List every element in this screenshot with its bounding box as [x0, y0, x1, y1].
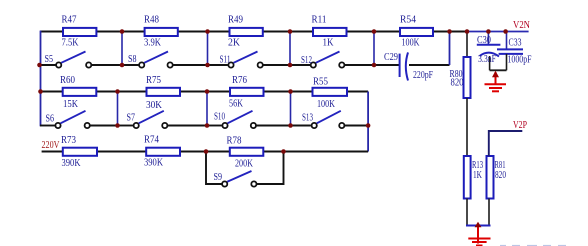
- resistor R75: [147, 88, 181, 96]
- switch S12: [311, 52, 345, 68]
- svg-text:R76: R76: [232, 74, 247, 86]
- wire row2 main horizontal: [40, 91, 368, 93]
- switch S6: [55, 111, 89, 128]
- switch S8: [139, 52, 173, 68]
- ground bottom: [468, 226, 490, 246]
- resistor R48: [145, 28, 178, 36]
- svg-text:220pF: 220pF: [413, 69, 433, 81]
- resistor R80: [464, 57, 471, 98]
- wire row1 main horizontal: [40, 31, 467, 33]
- switch S10: [222, 111, 256, 128]
- svg-text:390K: 390K: [62, 157, 81, 169]
- svg-text:R49: R49: [228, 14, 243, 26]
- wire R81 bottom lead: [488, 199, 490, 226]
- node bottom join arrow: [475, 222, 482, 228]
- resistor R76: [230, 88, 264, 96]
- svg-text:R73: R73: [61, 134, 76, 146]
- svg-text:S13: S13: [302, 112, 313, 124]
- wire row3 main horizontal: [42, 151, 369, 153]
- capacitor C29: [400, 52, 408, 80]
- switch S9: [222, 171, 256, 187]
- resistor R13: [464, 156, 471, 199]
- ground middle: [485, 72, 507, 91]
- wire riser row2 b: [206, 92, 208, 126]
- resistor R60: [63, 88, 97, 96]
- wire R80 top lead: [466, 32, 468, 58]
- wire S9 left drop: [206, 152, 222, 185]
- svg-text:220V: 220V: [42, 139, 60, 151]
- svg-text:R54: R54: [400, 14, 416, 26]
- svg-text:V2P: V2P: [513, 119, 527, 131]
- node switch row2 junctions: [115, 123, 370, 128]
- wire riser row2 a: [117, 92, 119, 126]
- svg-text:200K: 200K: [235, 158, 253, 170]
- svg-text:3.9K: 3.9K: [144, 37, 161, 49]
- svg-text:1K: 1K: [473, 169, 482, 181]
- svg-text:100K: 100K: [402, 37, 420, 49]
- wire riser row1 d: [373, 32, 375, 66]
- wire left rail: [40, 31, 42, 127]
- svg-text:1000pF: 1000pF: [508, 54, 532, 66]
- svg-text:S8: S8: [128, 53, 137, 65]
- decor bottom edge marks: [500, 245, 566, 246]
- svg-text:R11: R11: [312, 14, 327, 26]
- svg-text:30K: 30K: [146, 99, 162, 111]
- svg-text:100K: 100K: [317, 98, 335, 110]
- resistor R81: [487, 156, 494, 199]
- resistor R78: [230, 148, 263, 156]
- wire S9 right return: [257, 152, 284, 185]
- node row2 junctions: [38, 89, 293, 94]
- svg-text:S6: S6: [46, 113, 55, 125]
- wire riser row1 c: [289, 32, 291, 66]
- svg-text:820: 820: [495, 169, 506, 181]
- resistor R49: [230, 28, 263, 36]
- svg-text:56K: 56K: [229, 98, 243, 110]
- svg-text:1K: 1K: [323, 37, 334, 49]
- wire cap bottoms join: [490, 69, 507, 71]
- svg-text:R47: R47: [62, 14, 77, 26]
- node mid ground arrow: [492, 71, 499, 77]
- resistor R11: [313, 28, 347, 36]
- svg-text:R78: R78: [227, 135, 242, 147]
- resistor R54: [400, 28, 433, 36]
- wire C29 riser: [449, 32, 451, 66]
- svg-text:820: 820: [451, 77, 464, 89]
- wire riser row1 b: [207, 32, 209, 66]
- svg-text:S5: S5: [45, 53, 54, 65]
- svg-text:R74: R74: [144, 134, 159, 146]
- switch S13: [312, 111, 345, 128]
- svg-text:390K: 390K: [144, 157, 163, 169]
- wire bottom join: [466, 225, 491, 227]
- node row3 junctions: [204, 149, 286, 154]
- resistor R74: [146, 148, 180, 156]
- capacitor C33: [497, 32, 523, 71]
- svg-text:C33: C33: [509, 37, 522, 49]
- wire row1 right blue segment to V2N: [467, 31, 529, 33]
- resistor R73: [63, 148, 97, 156]
- wire R13 bottom lead: [466, 199, 468, 226]
- node top a (C29 riser): [447, 29, 452, 34]
- resistor R47: [63, 28, 96, 36]
- wire riser row1 a: [121, 32, 123, 66]
- wire R80 bottom to R13: [466, 98, 468, 156]
- switch S5: [56, 52, 91, 68]
- svg-text:7.5K: 7.5K: [62, 37, 79, 49]
- wire riser row2 c: [290, 92, 292, 126]
- switch S7: [134, 111, 168, 128]
- svg-text:S7: S7: [127, 112, 136, 124]
- switch S11: [228, 52, 262, 68]
- svg-text:R75: R75: [146, 74, 161, 86]
- svg-text:3.3nF: 3.3nF: [478, 53, 496, 65]
- svg-text:C30: C30: [477, 34, 491, 46]
- svg-text:V2N: V2N: [513, 19, 530, 31]
- capacitor C30: [477, 32, 501, 71]
- node row1 junctions: [120, 29, 508, 34]
- wire switch row1 segments: [39, 64, 450, 66]
- resistor R55: [313, 88, 348, 96]
- wire row2 right riser down to row3: [367, 92, 369, 152]
- svg-text:S12: S12: [301, 54, 312, 66]
- svg-text:R48: R48: [144, 14, 159, 26]
- svg-text:S10: S10: [214, 111, 225, 123]
- wire V2P net: [489, 131, 523, 156]
- node switch row1 junctions: [37, 63, 376, 68]
- wire switch row2 segments: [40, 125, 368, 127]
- svg-text:15K: 15K: [63, 98, 78, 110]
- svg-text:R55: R55: [313, 76, 328, 88]
- svg-text:S11: S11: [220, 54, 231, 66]
- svg-text:2K: 2K: [228, 37, 240, 49]
- svg-text:S9: S9: [214, 171, 223, 183]
- svg-text:C29: C29: [384, 51, 398, 63]
- svg-text:R60: R60: [60, 74, 75, 86]
